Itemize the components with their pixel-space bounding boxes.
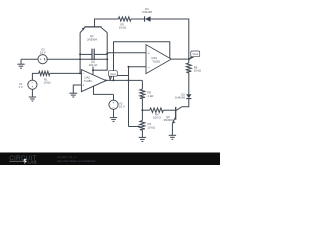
wire OA4 inverting net [129, 67, 147, 127]
OA4 output wire [171, 58, 189, 60]
svg-text:10 V: 10 V [40, 50, 46, 54]
wire cap row to OA4 + input [107, 52, 146, 54]
capacitor C2 100uF [80, 53, 92, 55]
svg-text:1 kΩ: 1 kΩ [148, 94, 154, 98]
wire flag row stub to OA4 net [117, 75, 128, 77]
ground (R3) [139, 136, 146, 138]
ground (OA2 +) [69, 92, 77, 94]
resistor R1 10k [39, 71, 50, 75]
wire V3 to node column [47, 58, 107, 60]
node Vout flag (right) [189, 57, 193, 59]
wire R2 to D1 [131, 18, 145, 20]
resistor R4 100 ohm (horizontal) [142, 109, 149, 111]
wire Q2 emitter to ground [171, 123, 173, 135]
svg-text:TL081: TL081 [152, 60, 160, 64]
svg-text:2N3904: 2N3904 [87, 37, 97, 41]
svg-text:1 V: 1 V [18, 85, 22, 89]
resistor R2 [118, 17, 131, 21]
svg-text:−: − [113, 105, 115, 109]
svg-text:Vout: Vout [192, 52, 198, 56]
wire OA2 output down to R5 [141, 80, 143, 89]
resistor R3 10k (vertical bottom) [140, 121, 145, 131]
OA2 V+ pin [92, 67, 94, 75]
svg-text:10 kΩ: 10 kΩ [43, 80, 50, 84]
node Vout flag (left) [109, 76, 111, 79]
ground (V3) [20, 59, 22, 64]
svg-text:http://circuitlab.com/c8de6kw: http://circuitlab.com/c8de6kw [57, 159, 96, 163]
voltage source V3 10V [21, 58, 38, 60]
watermark bar [0, 153, 220, 166]
wire R3 to ground [141, 130, 143, 137]
diode D2 1N4148 (vertical, pointing down) [186, 94, 191, 98]
svg-text:+: + [31, 85, 33, 89]
svg-text:+: + [40, 58, 42, 62]
svg-text:10 kΩ: 10 kΩ [148, 126, 155, 130]
ground (Q2) [169, 134, 176, 136]
svg-text:10 kΩ: 10 kΩ [119, 26, 126, 30]
wire Q1 right leg down to Vout flag [106, 33, 108, 71]
op-amp OA2 TL081 [81, 70, 106, 92]
wire wiper tap from OA4 net [129, 126, 140, 128]
svg-text:100 µF: 100 µF [89, 63, 98, 67]
OA2 V- pin [94, 86, 114, 94]
diode D1 1N4148 [144, 16, 146, 21]
svg-text:10 kΩ: 10 kΩ [194, 69, 201, 73]
wire R4 to Q2 base [163, 109, 176, 111]
wire V1 top to R1 [32, 73, 38, 80]
svg-text:TL081: TL081 [84, 79, 92, 83]
svg-text:+: + [113, 101, 115, 105]
node junction dots left column [79, 53, 81, 55]
svg-text:−: − [31, 81, 33, 85]
wire D1 to top-right corner down to OA4 output node [151, 19, 189, 59]
svg-text:1N4148: 1N4148 [175, 96, 185, 100]
transistor Q2 2N3904 [175, 107, 177, 120]
svg-text:LAB: LAB [28, 160, 37, 165]
ground (V1) [29, 96, 36, 98]
ground (V2) [110, 117, 117, 119]
svg-text:10 V: 10 V [119, 105, 125, 109]
svg-text:2N3904: 2N3904 [164, 118, 174, 122]
resistor R5 1k (vertical) [140, 89, 145, 99]
wire OA2 V+ stub right [93, 69, 107, 71]
svg-text:1N4148: 1N4148 [142, 10, 152, 14]
OA2 + input to ground [73, 85, 81, 93]
wire Q1 base to R2 row [95, 19, 119, 27]
wire feedback column x=113.5 up to top rail [114, 42, 170, 81]
wire R1 to OA2 inverting input [50, 72, 82, 74]
voltage source V1 1V [28, 80, 37, 89]
resistor R6 10k (vertical, right) [188, 59, 190, 63]
wire V1 bottom to ground [31, 89, 33, 97]
transistor Q1 2N3904 [84, 26, 101, 28]
wire Q1 left leg down feedback column [79, 33, 81, 74]
svg-text:Vout: Vout [110, 72, 116, 76]
op-amp OA4 TL081 [146, 45, 171, 74]
wire R5 to junction [141, 99, 143, 121]
wire D2 to Q2 collector [176, 99, 189, 111]
OA2 output wire [106, 79, 142, 81]
svg-text:100 Ω: 100 Ω [153, 115, 161, 119]
voltage source V2 10V [113, 95, 115, 101]
